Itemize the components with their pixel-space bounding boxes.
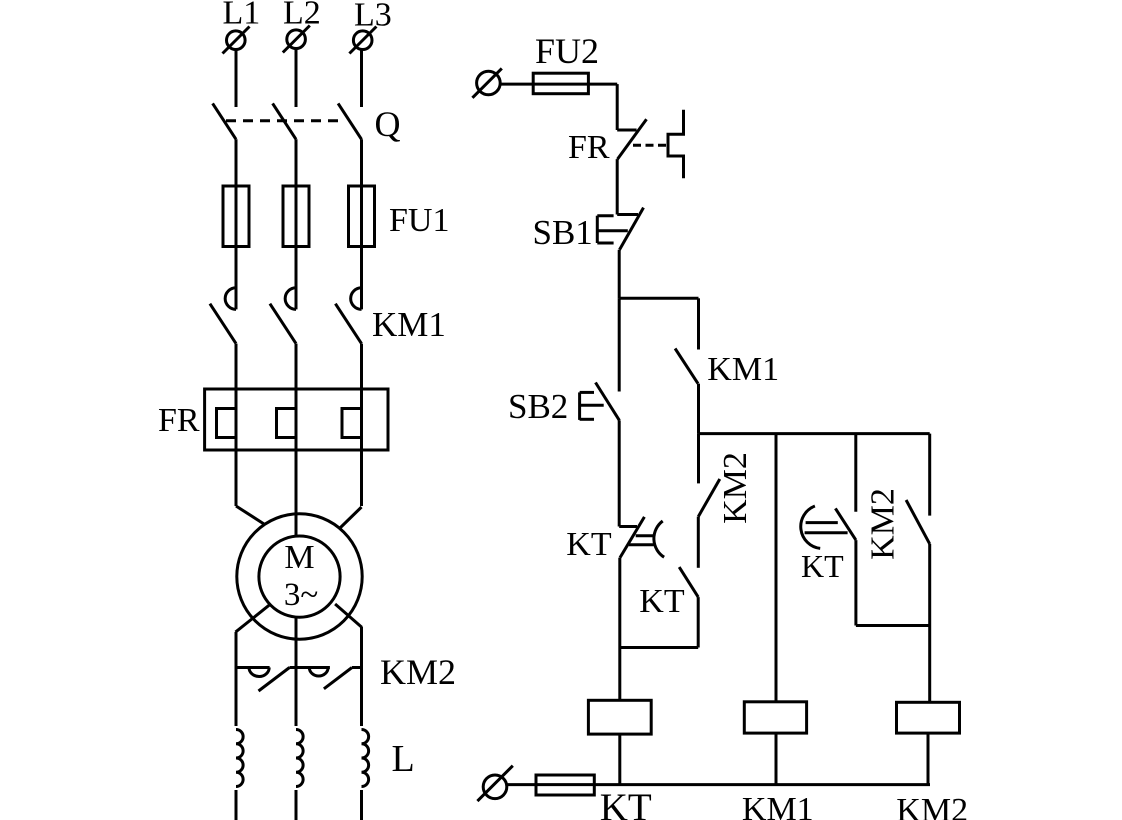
svg-text:KM2: KM2 bbox=[717, 452, 754, 524]
svg-text:KT: KT bbox=[600, 786, 652, 820]
svg-text:L3: L3 bbox=[354, 0, 392, 34]
svg-text:L1: L1 bbox=[223, 0, 261, 32]
svg-text:M: M bbox=[284, 539, 314, 576]
svg-text:L: L bbox=[392, 738, 415, 780]
svg-text:L2: L2 bbox=[283, 0, 321, 32]
svg-text:3~: 3~ bbox=[284, 577, 318, 613]
svg-text:FU2: FU2 bbox=[535, 31, 599, 71]
svg-text:KM1: KM1 bbox=[372, 305, 446, 344]
svg-text:KM2: KM2 bbox=[865, 488, 902, 560]
svg-text:SB1: SB1 bbox=[533, 213, 593, 252]
svg-text:KT: KT bbox=[566, 526, 612, 563]
svg-text:Q: Q bbox=[375, 104, 401, 144]
svg-text:FR: FR bbox=[568, 129, 610, 166]
svg-text:KM1: KM1 bbox=[742, 791, 814, 820]
svg-text:KT: KT bbox=[639, 583, 685, 620]
svg-text:SB2: SB2 bbox=[508, 387, 568, 426]
svg-text:KM2: KM2 bbox=[896, 792, 968, 820]
svg-text:KM2: KM2 bbox=[380, 652, 456, 692]
svg-text:FR: FR bbox=[158, 402, 200, 439]
svg-text:KT: KT bbox=[801, 548, 844, 584]
svg-text:KM1: KM1 bbox=[707, 351, 779, 388]
svg-text:FU1: FU1 bbox=[389, 202, 449, 239]
